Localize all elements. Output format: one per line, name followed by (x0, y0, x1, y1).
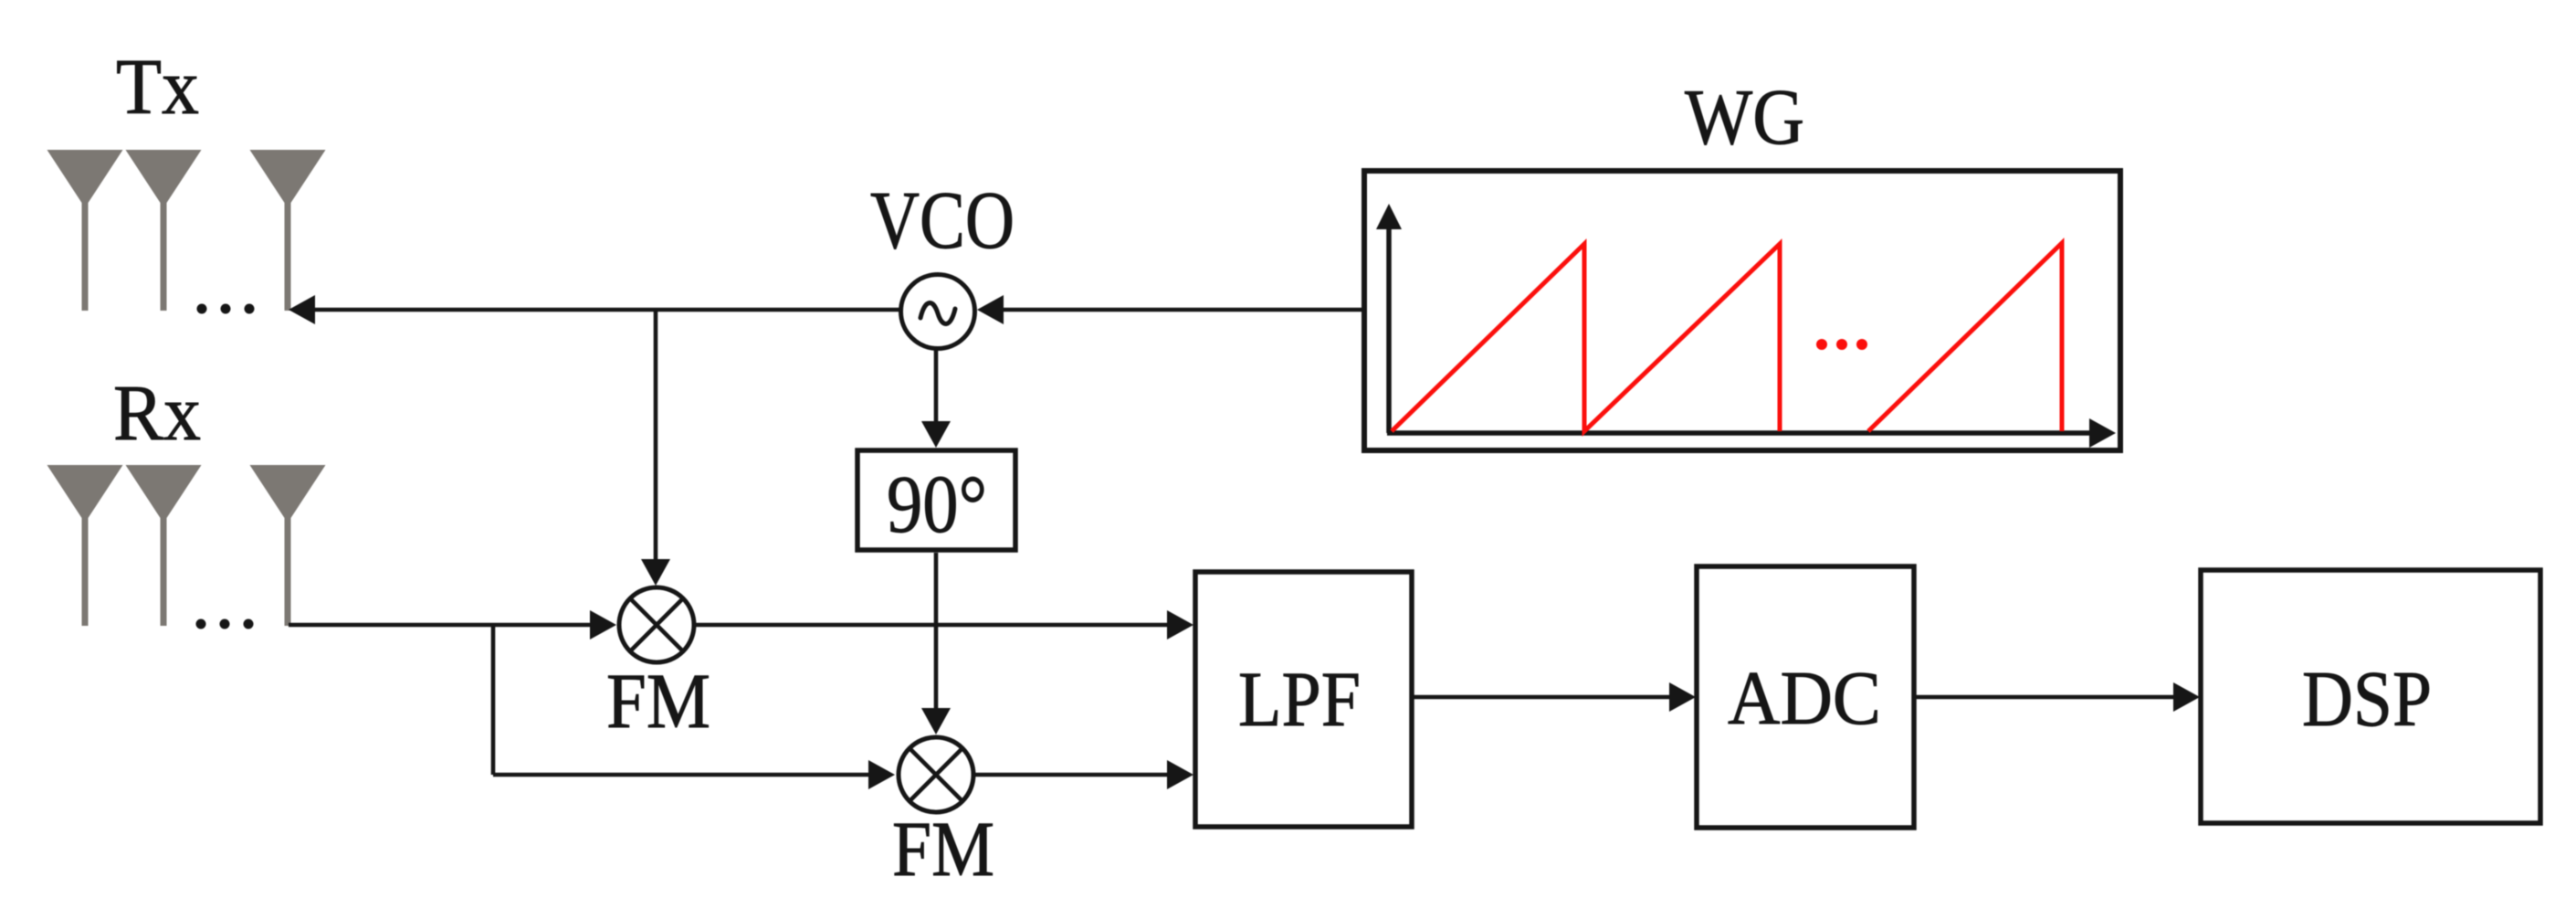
antenna Rx1 (47, 465, 123, 626)
WG x-axis (1387, 430, 2091, 436)
arrowhead into mixer FM1 left (590, 610, 616, 639)
block DSP box (2201, 570, 2540, 823)
svg-text:WG: WG (1685, 72, 1804, 161)
phase shifter 90 degree box (857, 450, 1015, 550)
mixer FM2 circle (899, 737, 973, 812)
block WG box (1364, 171, 2120, 450)
wire VCO to 90 degree box (934, 349, 939, 422)
wire Rx branch down (491, 625, 496, 775)
ellipsis chirps (1816, 339, 1867, 350)
arrowhead into DSP (2173, 682, 2200, 712)
antenna Tx3 (250, 150, 326, 311)
ellipsis Tx array (197, 304, 255, 314)
wire mixer FM1 to LPF (694, 623, 1168, 628)
wire Rx antennas to mixer FM1 (289, 623, 592, 628)
WG y-axis (1386, 228, 1392, 433)
arrowhead into Tx antenna (289, 295, 315, 324)
svg-text:DSP: DSP (2302, 654, 2432, 743)
block ADC box (1697, 566, 1914, 828)
oscillator VCO circle (901, 275, 975, 349)
wire branch down to mixer FM1 (654, 310, 658, 561)
svg-text:Rx: Rx (113, 368, 201, 457)
mixer FM2 cross (909, 748, 962, 801)
arrowhead into mixer FM1 top (641, 559, 670, 586)
svg-text:ADC: ADC (1728, 656, 1881, 741)
antenna Tx1 (47, 150, 123, 311)
mixer FM1 circle (619, 587, 694, 662)
svg-text:VCO: VCO (870, 175, 1015, 266)
arrowhead into mixer FM2 top (921, 708, 951, 735)
sawtooth chirps 1 and 2 (1392, 244, 1780, 431)
wire WG to VCO (1003, 308, 1364, 312)
arrowhead into mixer FM2 left (868, 760, 895, 789)
svg-text:FM: FM (606, 657, 710, 745)
sawtooth chirp 3 (1868, 243, 2062, 431)
svg-text:Tx: Tx (116, 42, 199, 131)
arrowhead into LPF lower (1167, 760, 1193, 789)
wire VCO to Tx antennas (313, 308, 900, 312)
antenna Tx2 (126, 150, 202, 311)
wire Rx branch to mixer FM2 (493, 773, 870, 777)
WG x-axis arrowhead (2089, 418, 2116, 448)
arrowhead into LPF upper (1167, 610, 1193, 639)
arrowhead into 90 degree box (921, 421, 951, 448)
wire 90 degree box to mixer FM2 (934, 553, 939, 710)
arrowhead into VCO right (977, 295, 1004, 324)
wire ADC to DSP (1914, 695, 2174, 700)
antenna Rx2 (126, 465, 202, 626)
VCO sine symbol (920, 303, 955, 324)
block LPF box (1195, 572, 1412, 827)
svg-text:FM: FM (892, 805, 994, 893)
svg-text:LPF: LPF (1238, 655, 1361, 743)
WG y-axis arrowhead (1376, 204, 1402, 229)
mixer FM1 cross (630, 598, 683, 651)
ellipsis Rx array (196, 619, 254, 629)
wire LPF to ADC (1412, 695, 1670, 700)
svg-text:90°: 90° (887, 460, 987, 550)
wire mixer FM2 to LPF (973, 773, 1168, 777)
arrowhead into ADC (1669, 682, 1696, 712)
antenna Rx3 (250, 465, 326, 626)
